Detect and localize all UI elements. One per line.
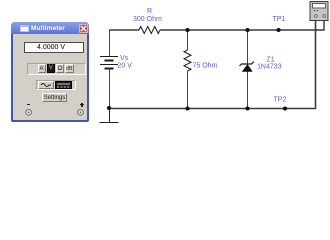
node TP2 junction [283, 106, 287, 110]
button sine [38, 81, 54, 89]
minus label [27, 104, 31, 106]
button dB [65, 64, 74, 73]
svg-text:75 Ohm: 75 Ohm [193, 62, 218, 69]
title text Multimeter [31, 24, 77, 33]
title bar [11, 22, 89, 34]
svg-text:TP1: TP1 [273, 16, 286, 23]
battery plate long [100, 64, 118, 66]
instrument icon terminal left [315, 15, 318, 18]
button DC pressed [55, 81, 73, 89]
wire 75 ohm branch bottom [187, 71, 189, 109]
button ohm [56, 64, 64, 73]
button A [38, 64, 46, 73]
ground [100, 109, 119, 123]
mode strip [27, 63, 86, 75]
svg-text:1N4733: 1N4733 [257, 63, 282, 70]
wire zener branch [247, 30, 249, 109]
wire bottom rail [109, 21, 316, 109]
waveform strip [36, 80, 76, 90]
button V pressed [47, 64, 56, 73]
readout display 4.0000 V [24, 42, 84, 53]
close button X [79, 24, 88, 33]
multimeter window frame [11, 22, 89, 122]
zener diode Z1 cathode bar [240, 62, 254, 66]
svg-text:20 V: 20 V [118, 62, 133, 69]
zener diode Z1 triangle [242, 65, 252, 72]
plus label [80, 104, 84, 105]
node junction bottom zener [245, 106, 249, 110]
node junction top zener [245, 28, 249, 32]
instrument icon buttons [314, 10, 316, 11]
battery V s plate long top [100, 56, 118, 58]
node junction bottom 75ohm [185, 106, 189, 110]
node junction bottom battery ground [107, 106, 111, 110]
node junction top 75ohm [185, 28, 189, 32]
instrument icon terminal right [323, 15, 326, 18]
wire 75 ohm branch top [187, 30, 189, 50]
terminal plus socket [78, 109, 84, 115]
Settings button [42, 93, 67, 102]
svg-text:Vs: Vs [120, 55, 129, 62]
terminal minus socket [26, 109, 32, 115]
svg-text:R: R [147, 8, 152, 15]
battery plate short thick bottom [105, 68, 114, 70]
svg-text:300 Ohm: 300 Ohm [133, 16, 162, 23]
instrument icon screen [313, 4, 326, 9]
resistor R zigzag [139, 27, 160, 34]
wire top rail right segment [160, 21, 324, 31]
wire left branch top [109, 30, 111, 57]
wire left branch bottom [109, 69, 111, 109]
instrument icon XMM body [310, 2, 328, 21]
wire top rail left segment [109, 29, 139, 31]
battery plate short thick [105, 60, 114, 62]
node TP1 junction [276, 28, 280, 32]
title icon [20, 25, 29, 32]
resistor 75 Ohm zigzag [184, 50, 191, 71]
svg-text:TP2: TP2 [274, 97, 287, 104]
